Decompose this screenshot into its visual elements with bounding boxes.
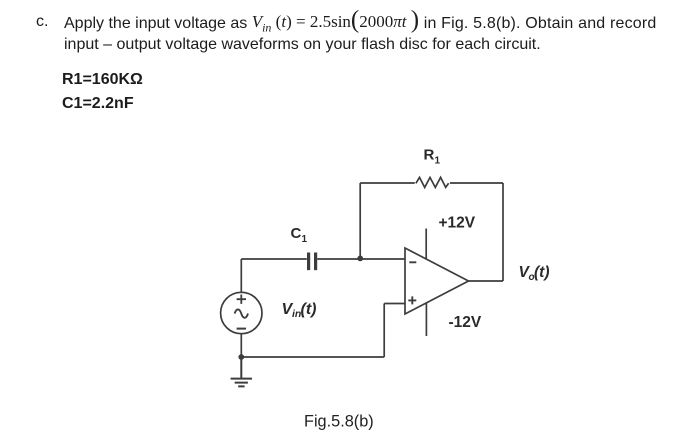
caption Fig.5.8(b) (304, 413, 374, 431)
paragraph line 1 (36, 14, 48, 30)
paragraph line 2 (64, 37, 541, 53)
negative supply pin wire -12V (425, 303, 427, 336)
svg-text:+12V: +12V (439, 215, 476, 232)
svg-text:(t): (t) (534, 264, 550, 281)
label -12V (449, 314, 482, 331)
svg-text:R: R (424, 147, 435, 164)
label +12V (439, 215, 476, 232)
junction dot at ground tap (238, 354, 244, 360)
wire source top vertical (240, 259, 242, 292)
wire feedback vertical left (359, 183, 361, 258)
source plus symbol (237, 295, 246, 304)
wire output (469, 280, 504, 282)
label R1 (424, 147, 441, 167)
wire source bottom vertical (240, 334, 242, 357)
wire capacitor to op-amp inverting input (317, 258, 405, 260)
op-amp U1 triangle (405, 248, 469, 314)
op-amp minus input symbol (409, 261, 416, 263)
op-amp plus input symbol (408, 296, 416, 304)
wire op-amp noninverting input (384, 303, 405, 305)
label Vin(t) (282, 301, 317, 320)
node junction at feedback tap (357, 256, 363, 262)
svg-text:C: C (291, 225, 302, 242)
wire feedback top right segment (450, 182, 503, 184)
wire noninverting vertical (383, 304, 385, 358)
value label R1 (62, 72, 143, 88)
svg-text:Fig.5.8(b): Fig.5.8(b) (304, 413, 374, 431)
source sine symbol (235, 309, 248, 317)
source VS circle (221, 292, 262, 333)
svg-text:1: 1 (435, 156, 441, 167)
value label C1 (62, 96, 134, 112)
label C1 (291, 225, 308, 245)
label Vo(t) (519, 264, 550, 283)
resistor R1 zigzag (416, 177, 449, 187)
svg-text:1: 1 (302, 234, 308, 245)
wire bottom return rail (241, 356, 384, 358)
ground (231, 357, 252, 386)
wire feedback right vertical (502, 183, 504, 281)
positive supply pin wire +12V (425, 229, 427, 260)
svg-text:-12V: -12V (449, 314, 482, 331)
source minus symbol (237, 328, 246, 330)
wire feedback top left segment (360, 182, 415, 184)
capacitor C1 plates (309, 253, 316, 271)
svg-text:(t): (t) (301, 301, 317, 318)
wire top horizontal to capacitor (241, 258, 306, 260)
